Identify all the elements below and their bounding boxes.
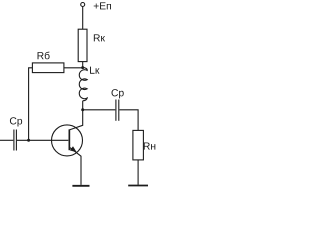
label +Ep: [94, 2, 111, 9]
inductor Lk: [79, 67, 87, 101]
wire Lk to node B: [82, 101, 84, 110]
wire Cp left to base: [17, 139, 68, 141]
wire node B to Cp right: [83, 109, 116, 111]
label Cp right: [112, 89, 124, 98]
capacitor Cp left plate 2: [15, 130, 17, 151]
capacitor Cp right plate 2: [118, 100, 120, 121]
wire terminal to Rk: [82, 7, 84, 30]
wire emitter: [69, 147, 81, 185]
resistor Rb: [32, 63, 64, 73]
ground right: [128, 185, 148, 187]
wire Rn to ground: [137, 160, 139, 185]
capacitor Cp left plate 1: [13, 130, 15, 151]
label Lk: [90, 67, 99, 74]
wire collector: [69, 110, 82, 130]
label Cp left: [10, 117, 22, 126]
ground left (emitter): [72, 185, 89, 187]
resistor Rn: [133, 130, 144, 160]
resistor Rk: [78, 29, 87, 61]
wire input to Cp left: [0, 139, 13, 141]
transistor base bar: [69, 129, 71, 150]
node A junction dot: [81, 66, 84, 69]
transistor VT1 circle: [52, 125, 83, 156]
node B junction dot: [81, 108, 84, 111]
wire Cp right to Rn: [119, 110, 138, 131]
label Rk: [94, 34, 105, 41]
wire Rb left lead: [29, 68, 33, 141]
label Rb: [38, 52, 50, 60]
terminal +Ep circle: [81, 3, 85, 7]
wire Rk to node A: [82, 62, 84, 68]
capacitor Cp right plate 1: [115, 100, 117, 121]
emitter arrow: [70, 146, 77, 152]
wire Rb right lead: [64, 67, 83, 69]
node C junction dot: [27, 139, 30, 142]
label Rn: [144, 143, 156, 150]
